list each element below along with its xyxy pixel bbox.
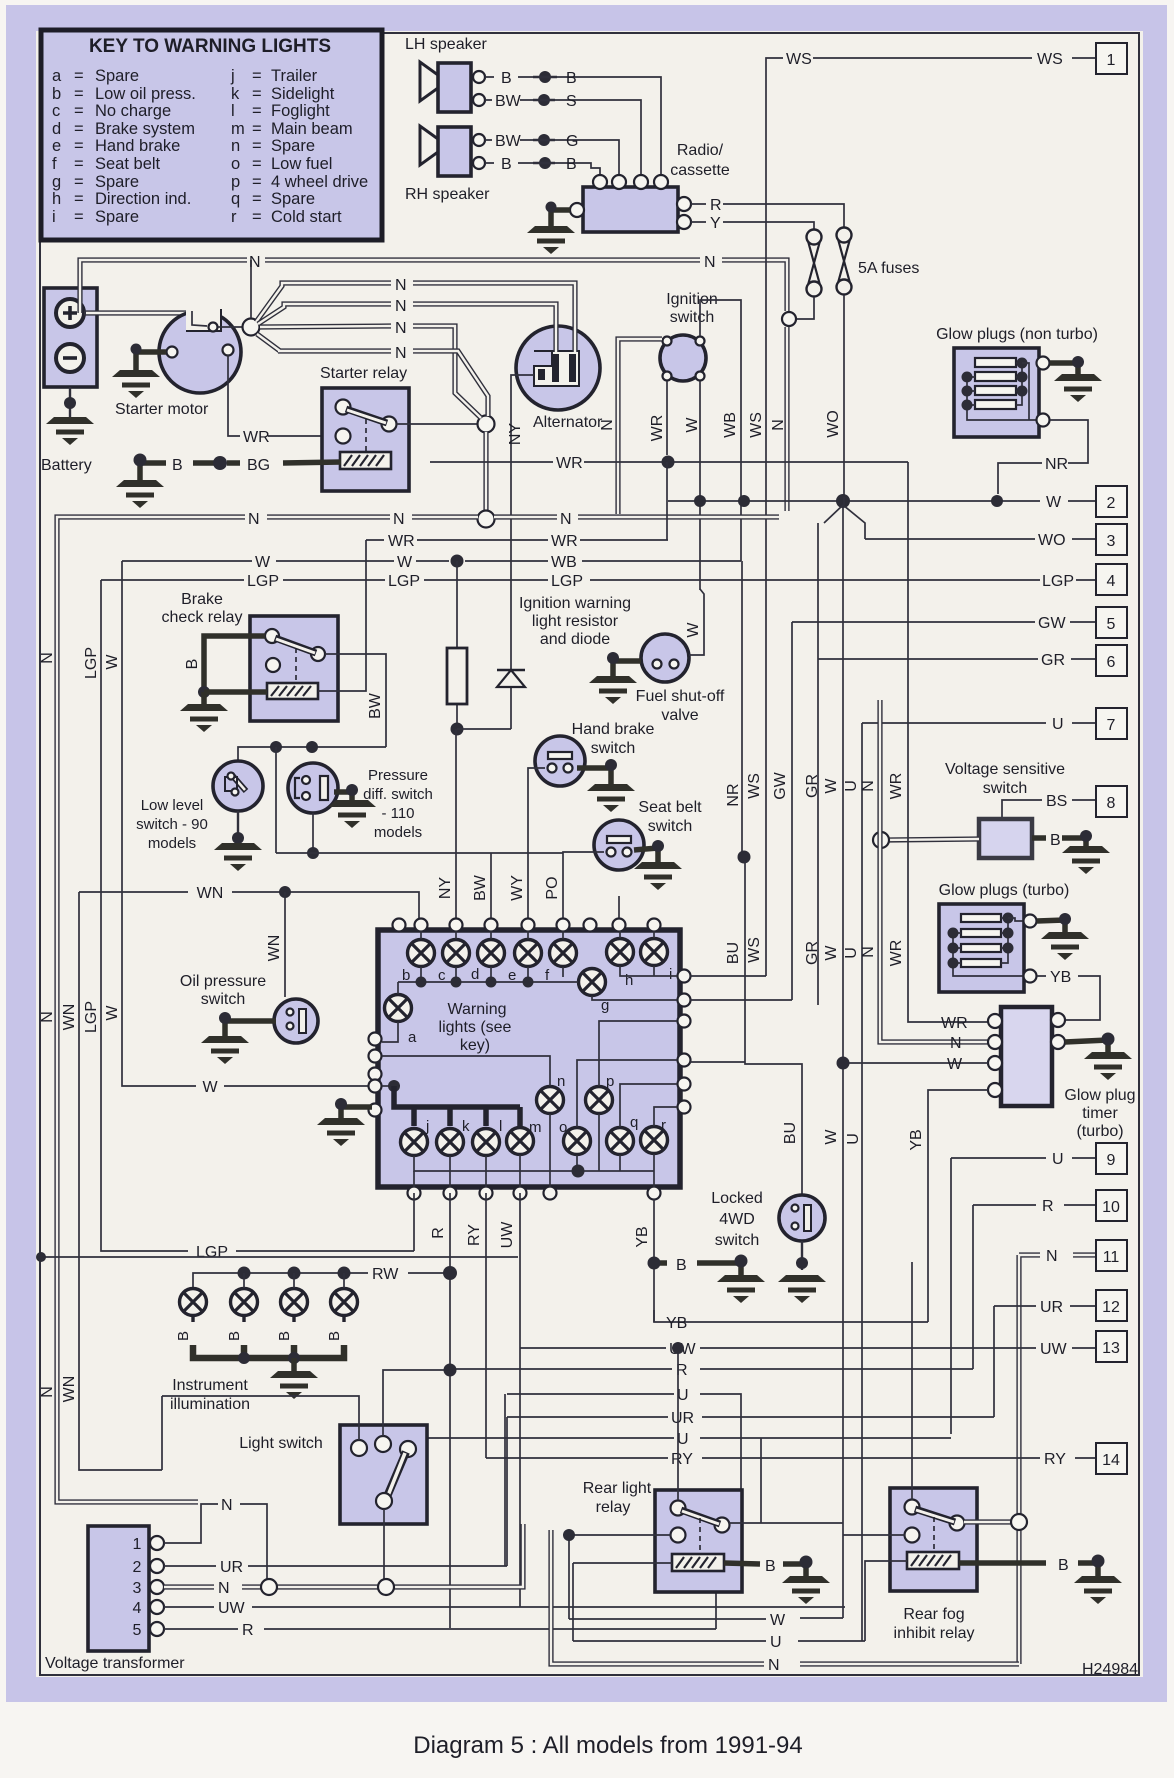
svg-text:LGP: LGP: [196, 1244, 228, 1261]
wire RY vertical below panel: [485, 1193, 487, 1458]
light switch: [340, 1425, 427, 1524]
svg-text:PO: PO: [544, 876, 561, 899]
wire BU from panel down to locked 4WD switch: [690, 861, 802, 1196]
wire LH speaker B: [485, 77, 661, 175]
svg-text:Direction ind.: Direction ind.: [95, 190, 191, 208]
svg-text:LH speaker: LH speaker: [405, 36, 487, 53]
svg-text:WR: WR: [388, 533, 415, 550]
wire UW row to terminal 13: [520, 1347, 1096, 1349]
svg-text:k: k: [231, 85, 240, 103]
junction hub right of starter: [243, 319, 260, 336]
wire N row 2: [256, 277, 575, 352]
wire radio Y to fuse: [691, 222, 814, 230]
radio cassette unit: [570, 175, 691, 232]
svg-text:N: N: [1046, 1248, 1058, 1265]
svg-text:q: q: [630, 1114, 638, 1131]
thick B bus under lamps: [193, 1316, 344, 1322]
svg-text:3: 3: [1107, 533, 1116, 550]
svg-text:N: N: [395, 298, 407, 315]
svg-text:W: W: [104, 654, 121, 670]
wire GR into panel region: [817, 990, 819, 1005]
svg-text:relay: relay: [596, 1499, 631, 1516]
svg-text:B: B: [1058, 1557, 1069, 1574]
svg-text:(turbo): (turbo): [1076, 1123, 1123, 1140]
glow plugs turbo unit: [939, 904, 1037, 992]
svg-text:WS: WS: [746, 773, 763, 799]
svg-text:WN: WN: [266, 935, 283, 962]
lamp o: [564, 1128, 591, 1155]
wire WR row lower: [366, 462, 668, 540]
svg-text:WY: WY: [509, 875, 526, 901]
rear light relay: [655, 1490, 742, 1592]
svg-text:N: N: [770, 419, 787, 431]
svg-text:B: B: [566, 70, 577, 87]
hand brake switch: [535, 736, 585, 786]
svg-text:WO: WO: [825, 410, 842, 438]
wire WR row upper: [430, 461, 908, 463]
Rear fog inhibit relay: [890, 1488, 977, 1591]
oil pressure switch: [274, 999, 318, 1043]
svg-text:H24984: H24984: [1082, 1661, 1138, 1678]
wire UW vertical below panel: [519, 1193, 521, 1607]
svg-text:timer: timer: [1082, 1105, 1118, 1122]
wire RY row to terminal 14: [486, 1457, 1096, 1459]
svg-text:W: W: [823, 1129, 840, 1145]
wire WN rail: [79, 892, 162, 1470]
wire RW bus to R: [193, 1273, 450, 1288]
svg-text:Fuel shut-off: Fuel shut-off: [636, 688, 725, 705]
svg-text:5A fuses: 5A fuses: [858, 260, 919, 277]
svg-text:=: =: [252, 155, 262, 173]
svg-text:Sidelight: Sidelight: [271, 85, 335, 103]
svg-text:i: i: [669, 966, 672, 983]
svg-text:r: r: [231, 208, 237, 226]
svg-text:N: N: [393, 511, 405, 528]
wire resistor-diode join: [457, 728, 511, 730]
svg-text:k: k: [462, 1118, 470, 1135]
svg-text:N: N: [860, 946, 877, 958]
wire U bottom row: [573, 1563, 865, 1641]
wire YB row: [654, 1310, 928, 1322]
svg-text:Oil pressure: Oil pressure: [180, 973, 266, 990]
fan diagonals from hub to N rows: [250, 260, 252, 318]
svg-text:4: 4: [133, 1600, 142, 1617]
svg-text:l: l: [231, 102, 235, 120]
terminal box 10: [1096, 1190, 1127, 1221]
lamp r: [641, 1127, 668, 1154]
svg-text:Ignition warning: Ignition warning: [519, 595, 631, 612]
svg-text:light resistor: light resistor: [532, 613, 619, 630]
svg-text:5: 5: [133, 1622, 142, 1639]
svg-text:W: W: [255, 554, 271, 571]
svg-text:q: q: [231, 190, 240, 208]
wire U row to terminal 7: [862, 723, 1096, 1641]
wire WB ignition over and down: [700, 300, 741, 561]
svg-text:U: U: [770, 1634, 782, 1651]
wire rear fog relay left contact: [843, 1534, 905, 1536]
svg-text:10: 10: [1102, 1199, 1120, 1216]
resistor R1: [456, 561, 458, 729]
wire N row 3: [258, 298, 556, 352]
svg-text:W: W: [202, 1079, 218, 1096]
svg-text:U: U: [843, 780, 860, 792]
svg-text:Foglight: Foglight: [271, 102, 330, 120]
svg-text:Y: Y: [710, 215, 721, 232]
terminal box 14: [1096, 1443, 1127, 1474]
wire N ignition to N row: [599, 339, 662, 514]
svg-text:BG: BG: [247, 457, 270, 474]
svg-text:switch: switch: [983, 780, 1027, 797]
svg-text:Low fuel: Low fuel: [271, 155, 332, 173]
svg-text:=: =: [74, 102, 84, 120]
svg-text:4: 4: [1107, 573, 1116, 590]
brake relay coil ground: [204, 692, 267, 704]
lamp f: [550, 940, 577, 967]
svg-text:UW: UW: [499, 1221, 516, 1249]
wire double into voltage switch: [886, 839, 979, 840]
low level switch - 90 models: [213, 761, 263, 811]
lamp c: [443, 940, 470, 967]
svg-text:check relay: check relay: [162, 609, 243, 626]
wire q to right terminal: [620, 1084, 677, 1127]
svg-text:B: B: [276, 1331, 293, 1341]
lamp e: [515, 940, 542, 967]
oil pressure switch ground: [225, 1021, 276, 1036]
terminal box 6: [1096, 645, 1127, 676]
wire light switch terminal 1: [162, 1396, 359, 1440]
wire a to left terminal: [382, 1022, 398, 1042]
wire rear light relay contact to W vertical: [729, 1516, 843, 1523]
key to warning lights box: [41, 30, 382, 240]
svg-text:=: =: [74, 173, 84, 191]
svg-text:m: m: [529, 1119, 542, 1136]
svg-text:switch: switch: [648, 818, 692, 835]
svg-text:m: m: [231, 120, 245, 138]
svg-text:Low level: Low level: [141, 797, 204, 814]
panel left terminals: [369, 1033, 382, 1117]
svg-text:N: N: [395, 345, 407, 362]
svg-text:NR: NR: [725, 783, 742, 806]
wire UW stub row left: [41, 1256, 518, 1258]
wire B brake relay to ground: [204, 636, 265, 689]
svg-text:KEY TO WARNING LIGHTS: KEY TO WARNING LIGHTS: [89, 36, 331, 57]
svg-text:Radio/: Radio/: [677, 142, 724, 159]
svg-text:RW: RW: [372, 1266, 399, 1283]
svg-text:j: j: [425, 1118, 429, 1135]
svg-text:=: =: [252, 67, 262, 85]
svg-text:Alternator: Alternator: [533, 414, 603, 431]
svg-text:=: =: [74, 190, 84, 208]
svg-text:Glow plug: Glow plug: [1064, 1087, 1135, 1104]
alternator: [516, 326, 600, 410]
svg-text:8: 8: [1107, 795, 1116, 812]
seat belt switch ground: [634, 848, 658, 862]
svg-text:=: =: [74, 208, 84, 226]
svg-text:=: =: [252, 190, 262, 208]
svg-text:Spare: Spare: [95, 208, 139, 226]
svg-text:R: R: [1042, 1198, 1054, 1215]
svg-text:BU: BU: [782, 1122, 799, 1144]
svg-text:WR: WR: [551, 533, 578, 550]
junction circle lightswitch-N: [378, 1579, 394, 1595]
svg-text:WO: WO: [1038, 532, 1066, 549]
wire GR row to terminal 6: [818, 658, 1096, 660]
wire rear fog relay TL feed: [911, 1262, 913, 1500]
svg-text:g: g: [52, 173, 61, 191]
svg-text:=: =: [252, 102, 262, 120]
svg-text:inhibit relay: inhibit relay: [894, 1625, 975, 1642]
wire left bundle verticals: [504, 1394, 506, 1566]
junction node B on N row: [478, 511, 495, 528]
svg-text:UW: UW: [218, 1600, 246, 1617]
wire R vertical below panel: [449, 1193, 451, 1628]
svg-text:B: B: [184, 659, 201, 670]
voltage transformer: [88, 1526, 164, 1651]
svg-text:LGP: LGP: [247, 573, 279, 590]
svg-text:=: =: [252, 137, 262, 155]
svg-text:R: R: [710, 197, 722, 214]
svg-text:N: N: [395, 277, 407, 294]
svg-text:c: c: [52, 102, 60, 120]
wire bus lower to warning feeds: [276, 747, 563, 853]
wire inner row to n: [382, 1056, 550, 1086]
svg-text:WR: WR: [649, 415, 666, 442]
wire pin4 UW: [164, 1606, 845, 1608]
instrument lamp 1: [180, 1289, 207, 1316]
svg-text:WN: WN: [61, 1376, 78, 1403]
svg-text:W: W: [823, 778, 840, 794]
svg-text:WR: WR: [556, 455, 583, 472]
svg-text:R: R: [430, 1227, 447, 1239]
instrument bus ground: [291, 1358, 297, 1372]
svg-text:U: U: [843, 947, 860, 959]
svg-text:=: =: [74, 155, 84, 173]
battery positive wire to starter: [84, 310, 192, 315]
lamp n: [537, 1087, 564, 1114]
svg-text:key): key): [460, 1037, 490, 1054]
svg-text:YB: YB: [1050, 969, 1071, 986]
svg-text:N: N: [395, 320, 407, 337]
svg-text:UR: UR: [1040, 1299, 1063, 1316]
svg-text:WN: WN: [61, 1004, 78, 1031]
svg-text:=: =: [252, 173, 262, 191]
wire N double mid vertical: [860, 700, 988, 1042]
wire pressure switch bottom: [312, 813, 314, 853]
svg-text:WB: WB: [551, 554, 577, 571]
panel top terminals: [393, 919, 661, 932]
svg-text:WS: WS: [786, 51, 812, 68]
svg-text:B: B: [566, 156, 577, 173]
lamp d: [478, 940, 505, 967]
svg-text:=: =: [252, 120, 262, 138]
lamp k: [437, 1129, 464, 1156]
svg-text:B: B: [175, 1331, 192, 1341]
wire B-BG ground branch to relay coil: [140, 462, 341, 463]
svg-text:N: N: [39, 1386, 56, 1398]
svg-text:12: 12: [1102, 1299, 1120, 1316]
svg-text:Brake system: Brake system: [95, 120, 195, 138]
svg-text:=: =: [74, 137, 84, 155]
wire YB timer output down: [928, 1090, 988, 1322]
wire light switch terminal 2 to R: [383, 1370, 450, 1436]
svg-text:W: W: [823, 945, 840, 961]
battery negative ground: [69, 387, 71, 420]
svg-text:B: B: [326, 1331, 343, 1341]
wire WR vertical to timer: [908, 462, 988, 1022]
glow plugs turbo ground: [1037, 920, 1065, 932]
svg-text:Pressure: Pressure: [368, 767, 428, 784]
wire WS stub to panel: [690, 940, 766, 976]
svg-text:switch - 90: switch - 90: [136, 816, 208, 833]
wire N bottom row: [551, 1530, 1019, 1674]
lamp m: [507, 1128, 534, 1155]
svg-text:9: 9: [1107, 1152, 1116, 1169]
wire N row 1: [80, 254, 787, 313]
wire LH speaker S (BW): [485, 100, 641, 175]
svg-text:BW: BW: [472, 874, 489, 901]
terminal box 1: [1096, 43, 1127, 74]
wire rear fog relay coil B ground: [959, 1563, 1098, 1576]
svg-text:=: =: [74, 67, 84, 85]
svg-text:RY: RY: [1044, 1451, 1066, 1468]
svg-text:13: 13: [1102, 1340, 1120, 1357]
wire panel lamp top stubs: [421, 931, 654, 939]
lamp q: [607, 1128, 634, 1155]
wire YB glow plugs to timer: [1037, 976, 1100, 1020]
wire W into timer: [843, 1062, 988, 1064]
svg-text:WR: WR: [888, 773, 905, 800]
terminal box 8: [1096, 786, 1127, 817]
lamp g: [579, 969, 606, 996]
lamp top stubs: [244, 1273, 344, 1288]
radio ground: [551, 210, 570, 226]
fuse F2 5A: [837, 228, 852, 295]
wire N left rail: [39, 530, 198, 1502]
wire NY down to panel: [455, 729, 457, 920]
svg-text:BU: BU: [725, 942, 742, 964]
wire GW row to terminal 5: [792, 622, 1096, 968]
wire panel bus b-f: [398, 982, 578, 994]
svg-text:W: W: [684, 417, 701, 433]
wire WS vertical: [765, 88, 767, 940]
svg-text:WN: WN: [197, 885, 224, 902]
wire W vertical long: [842, 505, 844, 1618]
svg-text:U: U: [845, 1133, 862, 1145]
svg-text:Seat belt: Seat belt: [638, 799, 702, 816]
svg-text:14: 14: [1102, 1452, 1120, 1469]
svg-text:LGP: LGP: [388, 573, 420, 590]
svg-text:LGP: LGP: [1042, 573, 1074, 590]
wire N row main: [57, 511, 779, 530]
svg-text:- 110: - 110: [381, 805, 414, 822]
svg-text:lights (see: lights (see: [439, 1019, 512, 1036]
wire bus to bottom terminals: [414, 1171, 654, 1187]
svg-text:Spare: Spare: [95, 67, 139, 85]
wire YB from panel r down: [653, 1199, 655, 1322]
wire rear fog relay contact double to N: [964, 1519, 1012, 1524]
battery: [44, 288, 97, 387]
svg-text:WS: WS: [746, 937, 763, 963]
wire radio R to fuse: [691, 204, 844, 228]
svg-text:Instrument: Instrument: [172, 1377, 248, 1394]
svg-text:YB: YB: [634, 1226, 651, 1247]
svg-text:NY: NY: [507, 423, 524, 446]
low level switch ground: [237, 811, 239, 845]
svg-text:N: N: [218, 1580, 230, 1597]
svg-text:RY: RY: [466, 1224, 483, 1246]
wire fuse F1 to N junction: [796, 297, 814, 319]
wire light switch lever down to N: [383, 1509, 385, 1581]
wire WR brake relay coil up: [318, 540, 366, 691]
wire PO seat belt to panel: [563, 852, 604, 920]
lamp p: [586, 1087, 613, 1114]
svg-text:WR: WR: [888, 940, 905, 967]
svg-text:switch: switch: [201, 991, 245, 1008]
svg-text:4WD: 4WD: [719, 1211, 755, 1228]
RH speaker: [420, 126, 485, 176]
svg-text:Glow plugs (non turbo): Glow plugs (non turbo): [936, 326, 1098, 343]
svg-text:UW: UW: [1040, 1341, 1068, 1358]
svg-text:LGP: LGP: [83, 1001, 100, 1033]
svg-text:G: G: [566, 133, 578, 150]
svg-text:N: N: [248, 511, 260, 528]
svg-text:N: N: [768, 1657, 780, 1674]
wire BW warning feed: [490, 853, 492, 920]
wire W from ignition down: [699, 381, 701, 590]
svg-text:=: =: [252, 85, 262, 103]
svg-text:a: a: [408, 1029, 417, 1046]
wire N double from junction A down to N row: [483, 432, 488, 511]
svg-text:Seat belt: Seat belt: [95, 155, 161, 173]
svg-text:BW: BW: [367, 692, 384, 719]
instrument lamp 3: [281, 1289, 308, 1316]
svg-text:f: f: [52, 155, 57, 173]
svg-text:=: =: [74, 85, 84, 103]
instrument lamp 4: [331, 1289, 358, 1316]
svg-text:Rear light: Rear light: [583, 1480, 652, 1497]
svg-text:B: B: [172, 457, 183, 474]
svg-text:GR: GR: [804, 774, 821, 798]
svg-text:B: B: [501, 70, 512, 87]
wire U row lower mid: [400, 1438, 951, 1516]
svg-text:and diode: and diode: [540, 631, 610, 648]
svg-text:6: 6: [1107, 654, 1116, 671]
wire rear light relay coil left: [573, 1562, 672, 1564]
svg-text:switch: switch: [591, 740, 635, 757]
svg-text:LGP: LGP: [551, 573, 583, 590]
svg-text:YB: YB: [908, 1129, 925, 1150]
glow plug timer: [988, 1007, 1065, 1106]
thick bus j-m: [394, 1086, 520, 1126]
wire R row mid: [450, 1368, 973, 1370]
pressure diff switch - 110 models: [288, 763, 338, 813]
svg-text:W: W: [104, 1005, 121, 1021]
svg-text:GR: GR: [1041, 652, 1065, 669]
panel ground left: [341, 1107, 372, 1118]
wire BS to terminal 8: [1002, 800, 1096, 819]
wire N stub into panel h: [618, 896, 620, 918]
lamp l: [473, 1129, 500, 1156]
wire B voltage switch to ground: [1032, 838, 1086, 846]
svg-text:valve: valve: [661, 707, 698, 724]
svg-text:Light switch: Light switch: [239, 1435, 323, 1452]
svg-text:NR: NR: [1045, 456, 1068, 473]
svg-text:WS: WS: [1037, 51, 1063, 68]
wire N row 5: [257, 334, 488, 416]
svg-text:RH speaker: RH speaker: [405, 186, 490, 203]
fuel shut-off valve: [641, 634, 689, 682]
wire RH speaker G (BW): [485, 140, 619, 175]
